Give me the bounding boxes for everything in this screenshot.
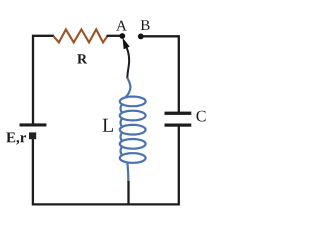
label R — [77, 54, 87, 63]
node B (switch contact) — [138, 34, 144, 40]
wire top-left rail — [33, 36, 54, 124]
capacitor C bottom plate — [165, 124, 192, 127]
switch arm (blade from inductor toward A) — [127, 48, 130, 79]
label A — [116, 21, 127, 31]
node A (switch contact) — [119, 33, 125, 39]
label B — [141, 20, 150, 30]
inductor L top lead (blue) — [125, 78, 130, 98]
label L — [103, 119, 113, 132]
inductor L coil — [120, 97, 146, 163]
wire battery to bottom-left corner and bottom rail — [33, 139, 129, 204]
inductor L bottom lead (blue) — [126, 162, 129, 182]
label E,r — [6, 133, 26, 145]
battery E,r short thick plate (negative terminal) — [29, 132, 36, 139]
wire inductor bottom lead (black) to bottom rail — [127, 181, 129, 204]
label C — [197, 111, 206, 122]
wire resistor to node A — [107, 35, 122, 37]
wire capacitor to bottom-right corner — [128, 127, 179, 205]
switch arrowhead pointing at A — [123, 38, 130, 50]
wire node B to top-right corner and down to capacitor — [141, 36, 179, 112]
resistor R — [53, 29, 107, 42]
battery E,r long plate (positive terminal) — [20, 123, 47, 126]
capacitor C top plate — [165, 112, 192, 115]
